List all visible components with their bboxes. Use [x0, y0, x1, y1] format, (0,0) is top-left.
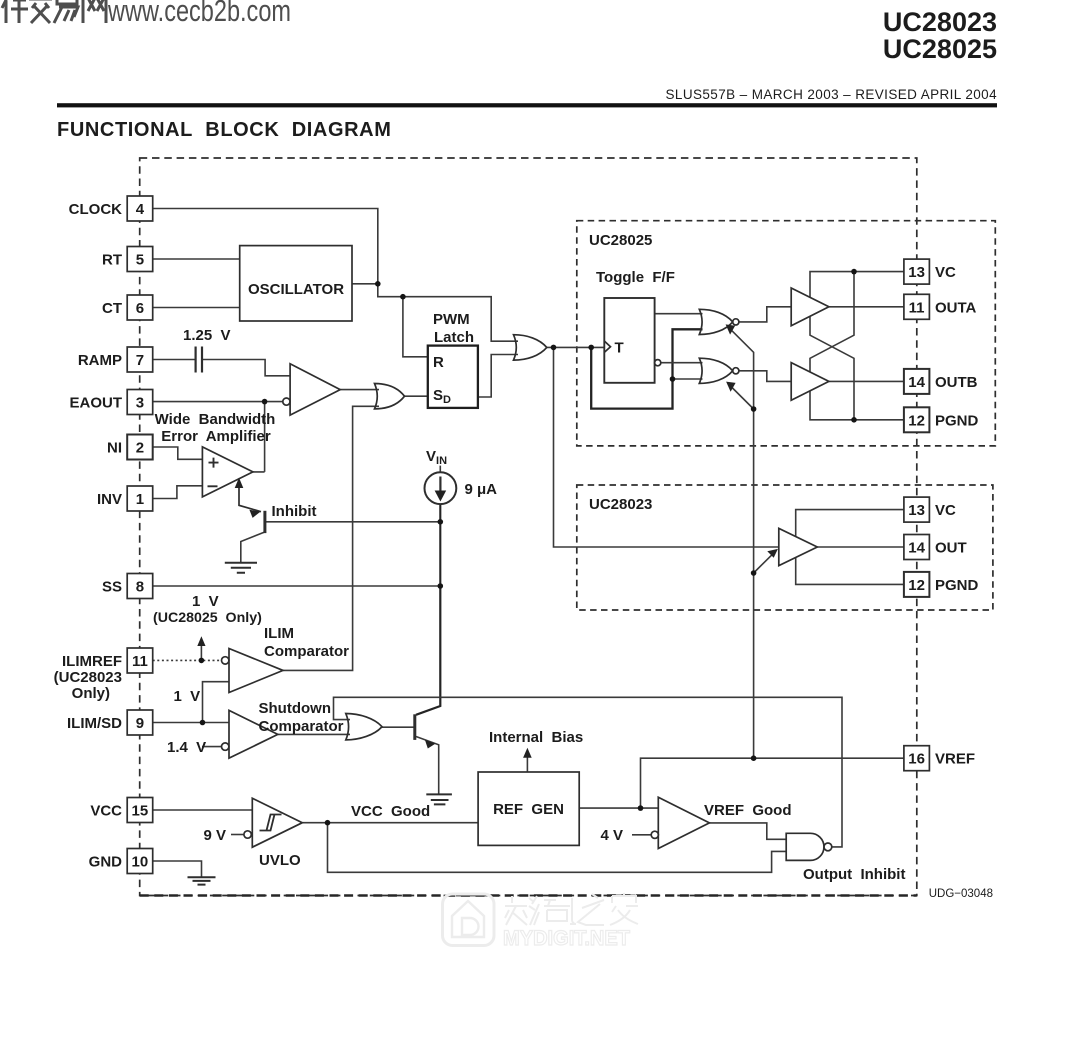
wire current source to SS rail	[439, 504, 441, 586]
svg-text:6: 6	[136, 300, 144, 317]
small OR gate U3 (to SD)	[375, 384, 405, 409]
wire CLOCK pin4 to oscillator output node	[153, 209, 378, 284]
wire 1.4V lead to shutdown comparator bubble	[202, 746, 221, 748]
ILIM comparator U5	[229, 649, 283, 693]
svg-text:Output Inhibit: Output Inhibit	[803, 866, 905, 883]
svg-text:UC28023: UC28023	[589, 496, 652, 513]
transistor Q1 inhibit: base bar	[263, 511, 266, 533]
svg-text:4 V: 4 V	[601, 827, 624, 844]
svg-text:SLUS557B – MARCH 2003 – REVISE: SLUS557B – MARCH 2003 – REVISED APRIL 20…	[666, 87, 998, 102]
NOR2 output bubble	[733, 368, 739, 374]
wire internal 1V arrow stem	[200, 642, 202, 660]
wire inhibit transistor Q1 base to VIN node	[266, 521, 440, 523]
wire 9V lead to UVLO bubble	[231, 834, 244, 836]
wire output-inhibit feedback to OR3 top input	[334, 697, 843, 847]
wire VC node down cross to driver B top	[810, 272, 854, 372]
wire REF GEN output to VREF good comparator	[579, 807, 658, 809]
oscillator block	[240, 246, 352, 321]
current source arrow	[439, 477, 441, 493]
shutdown comparator U6	[229, 710, 278, 758]
FF clock chevron	[604, 341, 610, 352]
error amp plus sign	[209, 458, 219, 468]
junction inhibit node UC28023	[751, 570, 757, 576]
wire capacitor to PWM comparator noninverting input	[202, 360, 290, 376]
main OR gate U4	[514, 335, 547, 360]
UVLO hysteresis symbol	[260, 815, 282, 831]
svg-text:11: 11	[132, 653, 148, 670]
junction NOR2 input node	[670, 376, 676, 382]
svg-text:1.4 V: 1.4 V	[167, 739, 206, 756]
wire EAOUT pin3 to PWM comparator inverting bubble	[153, 401, 283, 403]
svg-text:Comparator: Comparator	[259, 718, 344, 735]
pin 1 INV	[97, 486, 153, 511]
svg-text:8: 8	[136, 579, 144, 596]
wire latch output to main OR bottom input	[478, 355, 518, 398]
svg-text:PGND: PGND	[935, 577, 979, 594]
pin 10 GND	[89, 849, 153, 874]
junction FF input node	[588, 345, 594, 351]
wire small OR output to latch SD input	[405, 395, 428, 397]
svg-text:14: 14	[908, 540, 925, 557]
svg-text:Latch: Latch	[434, 329, 474, 346]
wire Q1 emitter to ground	[241, 532, 266, 563]
pin 6 CT	[102, 295, 153, 320]
svg-text:10: 10	[132, 854, 149, 871]
PWM comparator U2	[290, 364, 340, 415]
wire UC28023 PGND rail to pin12	[796, 558, 904, 585]
internal bias arrowhead	[523, 748, 532, 758]
svg-text:FUNCTIONAL BLOCK DIAGRAM: FUNCTIONAL BLOCK DIAGRAM	[57, 119, 391, 141]
FRAMES	[140, 158, 996, 896]
svg-text:UC28025: UC28025	[589, 232, 652, 249]
svg-text:VC: VC	[935, 264, 956, 281]
svg-text:CT: CT	[102, 300, 122, 317]
NAND output bubble	[824, 843, 832, 851]
wire driver A output to OUTA pin11	[829, 306, 904, 308]
svg-text:1: 1	[136, 491, 144, 508]
output driver B	[791, 363, 829, 401]
pin 12 PGND UC28023	[904, 572, 979, 597]
wire VIN stub above current source	[439, 466, 441, 473]
junction oscillator branch	[400, 294, 406, 300]
svg-text:EAOUT: EAOUT	[70, 395, 123, 412]
svg-text:SS: SS	[102, 579, 122, 596]
junction REF GEN output node	[638, 805, 644, 811]
wire RAMP pin7 to capacitor	[153, 359, 196, 361]
svg-text:Only): Only)	[72, 685, 110, 702]
Q2 emitter arrowhead	[425, 740, 436, 749]
ground for Q2 emitter	[426, 794, 452, 804]
bottom watermark logo	[443, 894, 495, 946]
svg-text:OUTB: OUTB	[935, 374, 978, 391]
svg-text:(UC28025 Only): (UC28025 Only)	[153, 610, 262, 626]
ground for GND pin	[188, 877, 216, 884]
svg-text:(UC28023: (UC28023	[54, 669, 122, 686]
svg-text:SD: SD	[433, 387, 451, 406]
pin 12 PGND UC28025	[904, 407, 979, 432]
inhibit arrow into error amp	[239, 485, 261, 512]
svg-text:5: 5	[136, 252, 144, 269]
svg-text:GND: GND	[89, 854, 123, 871]
svg-text:ILIM/SD: ILIM/SD	[67, 715, 122, 732]
outer boundary bottom edge (heavier)	[140, 894, 917, 897]
svg-text:13: 13	[908, 264, 925, 281]
wire internal bias arrow stem	[526, 754, 528, 773]
wire ILIM/SD pin9 to shutdown comparator	[153, 722, 229, 724]
wire UC28023 driver output to OUT pin14	[817, 546, 904, 548]
svg-text:VREF Good: VREF Good	[704, 802, 792, 819]
pin 3 EAOUT	[70, 390, 153, 415]
svg-text:14: 14	[908, 374, 925, 391]
wire ILIM comparator output up to small OR bottom input	[283, 406, 379, 670]
internal 1V arrowhead	[197, 636, 205, 646]
HEADER	[57, 7, 997, 141]
wire CT pin6 to oscillator	[153, 307, 240, 309]
wire OR3 output to Q2 base	[382, 726, 414, 728]
wire 4V lead to comparator bubble	[632, 834, 651, 836]
svg-text:1 V: 1 V	[174, 688, 201, 705]
ground for Q1 emitter	[225, 563, 257, 573]
wire driver A bottom cross down to PGND node	[810, 316, 854, 420]
UVLO buffer	[252, 798, 302, 847]
wire VREF node to pin16	[641, 758, 904, 808]
error amplifier U1	[202, 447, 253, 497]
wire SS pin8	[153, 585, 441, 587]
PWM latch block	[428, 346, 478, 408]
svg-text:Shutdown: Shutdown	[259, 700, 331, 717]
VIN current source circle	[425, 472, 457, 504]
wire INV pin1 to error amp - input	[153, 486, 203, 499]
UC28023 section dashed box	[577, 485, 993, 610]
svg-text:MYDIGIT.NET: MYDIGIT.NET	[503, 927, 630, 950]
junction VC rail node	[851, 269, 857, 275]
shutdown comparator input bubble	[222, 743, 229, 750]
pin 8 SS	[102, 574, 153, 599]
outer chip dashed boundary	[140, 158, 917, 896]
svg-text:Error Amplifier: Error Amplifier	[161, 428, 271, 445]
wire inhibit bus vertical	[753, 409, 755, 758]
wire NOR1 output to driver A input	[739, 307, 791, 322]
wire error amplifier output to EAOUT node	[253, 402, 265, 472]
svg-text:12: 12	[908, 577, 925, 594]
svg-text:9 V: 9 V	[204, 827, 227, 844]
wire ILIM comparator lower input to ILIM/SD node	[203, 682, 230, 723]
wire inhibit arrow to NOR1	[731, 329, 754, 409]
svg-text:VCC: VCC	[90, 803, 122, 820]
inhibit arrowhead to NOR2	[726, 382, 736, 392]
wire UVLO output VCC Good to REF GEN	[302, 822, 478, 824]
wire VREF good output to NAND upper input	[709, 823, 786, 839]
svg-text:9 μA: 9 μA	[465, 481, 498, 498]
wire toggle FF feedback to NOR1 lower input	[591, 329, 702, 408]
junction ILIM/SD node	[200, 720, 206, 726]
junction VCC good node	[325, 820, 331, 826]
svg-text:INV: INV	[97, 491, 122, 508]
junction PWM output node	[551, 345, 557, 351]
svg-text:15: 15	[132, 803, 149, 820]
svg-text:VREF: VREF	[935, 751, 975, 768]
VREF good comparator U8	[658, 797, 709, 848]
wire SS rail down to Q2 collector	[416, 586, 440, 715]
inhibit arrowhead to NOR1	[726, 324, 736, 334]
NOR1 output bubble	[733, 319, 739, 325]
NOR gate N2	[699, 358, 732, 383]
svg-text:VCC Good: VCC Good	[351, 803, 430, 820]
svg-text:NI: NI	[107, 440, 122, 457]
output driver A	[791, 288, 829, 326]
pin 7 RAMP	[78, 347, 153, 372]
svg-text:Inhibit: Inhibit	[272, 503, 317, 520]
pin 16 VREF	[904, 746, 975, 771]
svg-text:ILIM: ILIM	[264, 625, 294, 642]
REF GEN block	[478, 772, 579, 845]
wire GND pin10 to ground	[153, 861, 202, 877]
junction clock/oscillator	[375, 281, 381, 287]
wire Q2 emitter to ground	[416, 737, 439, 795]
svg-text:1 V: 1 V	[192, 593, 219, 610]
wire ILIMREF dotted to ILIM comparator bubble	[153, 659, 222, 661]
ILIM comparator input bubble	[222, 657, 229, 664]
wire shutdown comparator output to OR3	[278, 733, 350, 735]
wire branch to main OR gate top input	[403, 297, 518, 342]
header rule	[57, 103, 997, 107]
junction PGND rail node	[851, 417, 857, 423]
svg-text:12: 12	[908, 412, 925, 429]
svg-text:VIN: VIN	[426, 448, 447, 467]
svg-text:ILIMREF: ILIMREF	[62, 653, 122, 670]
junction inhibit/VREF node	[751, 755, 757, 761]
bottom watermark CJK outline strokes	[505, 893, 638, 925]
svg-text:CLOCK: CLOCK	[69, 201, 122, 218]
wire RT pin5 to oscillator	[153, 258, 240, 260]
junction VIN/Q1 collector	[438, 519, 444, 525]
pin 14 OUT	[904, 535, 967, 560]
junction VIN/SS	[438, 583, 444, 589]
UC28023 output driver	[779, 528, 818, 565]
svg-text:Wide Bandwidth: Wide Bandwidth	[155, 411, 276, 428]
wire FF Q output to NOR1 upper input	[655, 313, 703, 315]
wire main OR output to toggle FF T input	[547, 346, 605, 348]
svg-text:T: T	[615, 340, 624, 357]
NOR gate N1	[699, 309, 732, 334]
svg-text:Internal Bias: Internal Bias	[489, 729, 583, 746]
shutdown OR gate U7	[346, 714, 382, 740]
error amp minus sign	[208, 485, 218, 487]
svg-text:OUTA: OUTA	[935, 299, 977, 316]
svg-text:UC28025: UC28025	[883, 34, 997, 64]
toggle flip-flop block	[604, 298, 654, 383]
svg-text:OSCILLATOR: OSCILLATOR	[248, 281, 344, 298]
wire UC28023 VC rail to pin13	[796, 510, 904, 537]
NAND gate output inhibit	[786, 833, 824, 860]
svg-text:OUT: OUT	[935, 540, 967, 557]
pin 14 OUTB	[904, 369, 978, 394]
pin 15 VCC	[90, 798, 152, 823]
svg-text:Comparator: Comparator	[264, 643, 349, 660]
svg-text:R: R	[433, 354, 444, 371]
junction EAOUT node	[262, 399, 268, 405]
pin 2 NI	[107, 435, 153, 460]
svg-text:13: 13	[908, 502, 925, 519]
svg-text:Toggle F/F: Toggle F/F	[596, 269, 675, 286]
wire NOR2 output to driver B input	[739, 371, 791, 382]
pin 11 ILIMREF	[62, 648, 153, 673]
UVLO input bubble	[244, 831, 251, 838]
PINS	[62, 196, 979, 874]
svg-text:9: 9	[136, 715, 144, 732]
wire PWM comparator output to small OR top input	[340, 389, 379, 391]
VREF good input bubble	[651, 831, 658, 838]
svg-text:UC28023: UC28023	[883, 7, 997, 37]
svg-text:PWM: PWM	[433, 311, 470, 328]
UC28025 section dashed box	[577, 221, 996, 446]
WATERMARKS	[2, 0, 638, 950]
wire node to NOR2 lower input	[673, 378, 703, 380]
PWM comparator inverting bubble	[283, 398, 290, 405]
wire VC rail to pin13 UC28025	[810, 272, 904, 298]
capacitor C 1.25V	[196, 347, 202, 373]
wire branch to PWM latch R input	[403, 297, 428, 357]
svg-text:4: 4	[136, 201, 145, 218]
wire driver B output to OUTB pin14	[829, 380, 904, 382]
svg-text:2: 2	[136, 440, 144, 457]
pin 5 RT	[102, 247, 153, 272]
wire PGND rail to pin12 UC28025	[810, 391, 904, 420]
FF Qbar bubble	[655, 360, 661, 366]
pin 9 ILIM/SD	[67, 710, 153, 735]
transistor Q2 shutdown: base bar	[413, 714, 416, 740]
svg-text:UVLO: UVLO	[259, 852, 301, 869]
inhibit arrowhead to UC28023 driver	[767, 549, 778, 558]
svg-text:UDG−03048: UDG−03048	[929, 888, 993, 900]
pin 4 CLOCK	[69, 196, 153, 221]
wire NI pin2 to error amp + input	[153, 447, 203, 459]
svg-text:3: 3	[136, 395, 144, 412]
svg-text:1.25 V: 1.25 V	[183, 327, 231, 344]
pin 13 VC UC28025	[904, 259, 956, 284]
svg-text:7: 7	[136, 352, 144, 369]
wire inhibit arrow to NOR2	[731, 387, 754, 410]
top watermark CJK strokes (cut off)	[2, 0, 106, 23]
svg-text:RAMP: RAMP	[78, 352, 122, 369]
pin 13 VC UC28023	[904, 497, 956, 522]
wire inhibit arrow to UC28023 driver	[754, 551, 776, 573]
svg-text:VC: VC	[935, 502, 956, 519]
svg-text:11: 11	[909, 299, 925, 316]
svg-text:REF GEN: REF GEN	[493, 801, 564, 818]
svg-text:www.cecb2b.com: www.cecb2b.com	[107, 0, 291, 28]
svg-text:16: 16	[908, 751, 925, 768]
wire VCC pin15 to UVLO	[153, 809, 253, 811]
junction ILIMREF 1V	[199, 658, 205, 664]
wire FF Qbar output to NOR2 upper input	[661, 362, 703, 364]
svg-text:PGND: PGND	[935, 412, 979, 429]
wire oscillator output	[352, 283, 378, 285]
pin 11 OUTA	[904, 294, 977, 319]
wire clock node down to branch node	[378, 284, 403, 297]
junction inhibit node UC28025	[751, 406, 757, 412]
wire VCC Good down to NAND lower input	[328, 823, 787, 873]
svg-text:RT: RT	[102, 252, 122, 269]
wire PWM node down to UC28023 driver input	[554, 347, 779, 547]
